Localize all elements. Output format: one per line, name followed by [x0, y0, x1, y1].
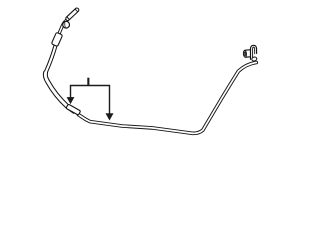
callout bracket	[71, 86, 110, 115]
right fitting: hook loop	[251, 45, 257, 59]
hose tube: narrow pipe from sleeve to right fitting (double outline)	[79, 63, 257, 134]
neck tube at top-left fitting (elbow)	[58, 20, 67, 36]
right fitting: clip cylinder	[243, 50, 251, 58]
collar fitting below ring	[51, 32, 62, 46]
arrow 2 head	[106, 114, 113, 120]
hose tube: upper section from collar to knee	[45, 45, 74, 112]
hook foot	[251, 57, 257, 62]
arrow 1 head	[67, 97, 74, 103]
clamp ring at top-left fitting	[63, 21, 70, 28]
label 1 tick	[87, 78, 89, 86]
tip cylinder of top-left fitting	[65, 7, 80, 21]
hook inner line	[253, 47, 255, 58]
sleeve fitting on tube (lower left)	[66, 104, 81, 115]
ring inner edge hint	[64, 22, 67, 27]
